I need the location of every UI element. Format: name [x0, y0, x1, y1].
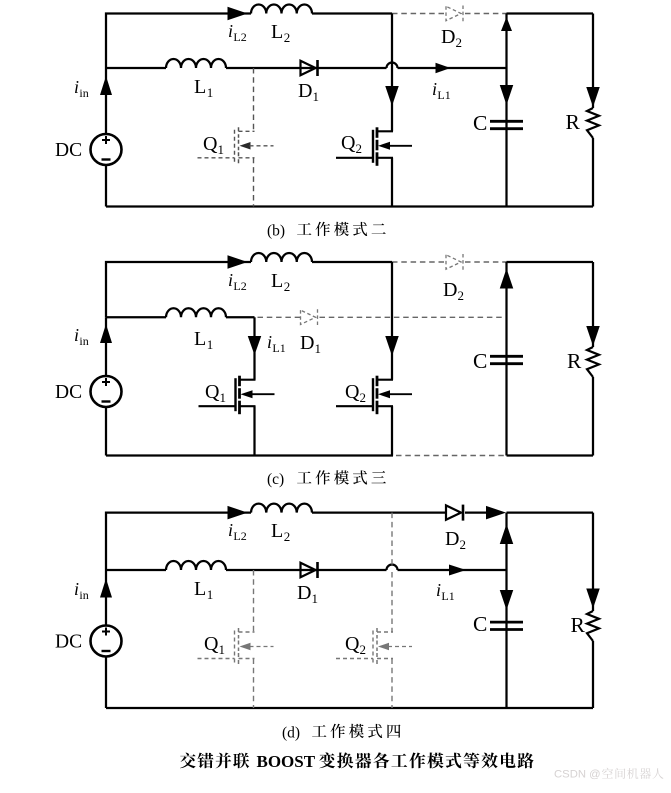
svg-text:Q: Q — [345, 633, 360, 655]
circuit (c): wire Q2 source to bottom rail — [391, 406, 393, 455]
circuit (d): wire bottom rail — [106, 707, 593, 709]
circuit (b): wire middle rail left of L1 — [106, 67, 166, 69]
circuit (d): wire top-left rail segment — [106, 513, 251, 570]
circuit (b): current arrow down into R — [586, 87, 600, 107]
svg-text:L2: L2 — [233, 30, 246, 44]
circuit (c): current arrow iin — [100, 324, 112, 343]
circuit (d): wire D2 to output node — [465, 511, 486, 513]
circuit (b): resistor R — [587, 108, 599, 138]
circuit (b): current arrow down into Q2 — [385, 86, 399, 106]
circuit (b): inductor L2 — [251, 4, 312, 13]
circuit (d): transistor Q1 (off, dashed) — [234, 631, 236, 664]
circuit (b): wire hop over Q2 drain — [387, 63, 398, 68]
circuit (d): dashed drain wire of Q1 — [253, 570, 255, 632]
svg-text:2: 2 — [355, 141, 362, 156]
circuit (b): capacitor C — [490, 120, 523, 123]
circuit (d): wire top-right to R — [507, 511, 594, 513]
svg-text:BOOST: BOOST — [257, 752, 316, 771]
circuit (c): resistor R — [587, 347, 599, 377]
circuit (d): wire left rail upper — [105, 570, 107, 626]
svg-text:L: L — [194, 578, 206, 600]
svg-text:2: 2 — [284, 30, 291, 45]
svg-text:in: in — [79, 334, 88, 348]
svg-text:Q: Q — [204, 633, 219, 655]
circuit (b): wire left rail lower — [105, 165, 107, 207]
circuit (b): wire output node vertical (capacitor branch) — [505, 14, 507, 207]
circuit (c): dashed bottom rail (idle segment) — [396, 455, 507, 457]
circuit (c): wire middle rail L1 to corner — [226, 316, 255, 318]
svg-text:L: L — [271, 270, 283, 292]
svg-text:2: 2 — [284, 279, 291, 294]
circuit (c): wire output node vertical (capacitor branch) — [505, 262, 507, 456]
svg-text:i: i — [74, 579, 79, 599]
svg-text:DC: DC — [55, 632, 82, 653]
circuit (c): wire bottom rail left solid — [106, 454, 393, 456]
circuit (b): current arrow iin — [100, 76, 112, 95]
svg-text:D: D — [298, 80, 312, 102]
svg-text:i: i — [267, 332, 272, 352]
circuit (b): dashed wire D2 to output node — [465, 13, 507, 15]
circuit (b): transistor Q2 (on) — [372, 130, 374, 163]
svg-text:Q: Q — [203, 133, 218, 155]
circuit (b): dashed source wire of Q1 — [253, 158, 255, 207]
svg-text:in: in — [79, 86, 88, 100]
svg-text:(d): (d) — [282, 725, 300, 742]
circuit (b): inductor L1 — [166, 59, 226, 68]
circuit (d): wire middle rail L1 to hop — [226, 569, 387, 571]
svg-text:L1: L1 — [437, 88, 450, 102]
circuit (b): transistor Q1 (off, dashed) — [234, 130, 236, 163]
circuit (b): wire left rail upper — [105, 68, 107, 134]
circuit (c): current arrow down into Q2 — [385, 336, 399, 356]
svg-text:D: D — [443, 279, 457, 301]
svg-text:1: 1 — [314, 341, 321, 356]
circuit (c): wire left rail lower — [105, 407, 107, 456]
svg-text:C: C — [473, 111, 487, 135]
svg-text:1: 1 — [207, 587, 214, 602]
circuit (c): DC source V1 — [91, 376, 122, 407]
circuit (b): wire Q2 source to bottom rail — [391, 158, 393, 207]
circuit (c): current arrow down into R — [586, 326, 600, 346]
circuit (c): wire top after L2 — [312, 261, 392, 263]
circuit (d): current arrow iL1 on middle rail — [449, 565, 466, 576]
circuit (b): wire bottom rail — [106, 205, 593, 207]
svg-text:1: 1 — [312, 89, 319, 104]
svg-text:D: D — [297, 582, 311, 604]
circuit (d): wire resistor branch lower — [592, 641, 594, 708]
circuit (d): current arrow up to top node — [500, 524, 514, 544]
circuit (d): dashed source wire of Q2 — [391, 659, 393, 709]
svg-text:(b): (b) — [267, 223, 285, 240]
svg-text:L: L — [271, 520, 283, 542]
svg-text:Q: Q — [345, 381, 360, 403]
circuit (c): wire Q1 drain from corner — [253, 317, 255, 379]
svg-text:2: 2 — [359, 390, 366, 405]
circuit (b): wire middle rail L1 to hop — [226, 67, 387, 69]
svg-text:2: 2 — [459, 537, 466, 552]
circuit (d): diode D2 (on) — [446, 505, 461, 519]
circuit (c): caption mode-3 text — [297, 471, 311, 483]
circuit (b): current arrow iL1 on middle rail — [436, 63, 451, 74]
circuit (c): inductor L2 — [251, 253, 312, 262]
circuit (c): wire Q2 drain from top rail — [391, 262, 393, 380]
circuit (d): wire left rail lower — [105, 657, 107, 709]
circuit (d): resistor R — [587, 611, 599, 641]
svg-text:1: 1 — [207, 85, 214, 100]
circuit (b): wire Q2 drain from top rail — [391, 14, 393, 132]
circuit (b): current arrow down into capacitor — [500, 85, 514, 105]
svg-text:1: 1 — [311, 591, 318, 606]
svg-text:i: i — [228, 270, 233, 290]
circuit (c): wire top-right to R — [507, 261, 594, 263]
circuit (d): current arrow into output node — [486, 506, 506, 519]
circuit (c): current arrow up from capacitor — [500, 269, 514, 289]
svg-text:i: i — [74, 325, 79, 345]
circuit (c): dashed wire top (off path to D2) — [392, 261, 446, 263]
svg-text:DC: DC — [55, 382, 82, 403]
svg-text:L1: L1 — [272, 341, 285, 355]
circuit (c): current arrow iL1 down into Q1 — [248, 336, 262, 355]
svg-text:2: 2 — [457, 288, 464, 303]
circuit (d): caption mode-4 text — [312, 725, 326, 737]
circuit (d): current arrow down into capacitor — [500, 590, 514, 610]
circuit (c): wire resistor branch upper — [592, 262, 594, 347]
svg-text:2: 2 — [455, 35, 462, 50]
svg-text:DC: DC — [55, 140, 82, 161]
svg-text:1: 1 — [218, 642, 225, 657]
svg-text:D: D — [441, 26, 455, 48]
circuit (b): DC source V1 — [91, 134, 122, 165]
circuit (c): transistor Q1 (on) — [234, 378, 236, 411]
circuit (c): wire left rail upper — [105, 317, 107, 376]
circuit (d): dashed drain wire of Q2 lower — [391, 572, 393, 632]
circuit (c): transistor Q2 (on) — [372, 378, 374, 411]
circuit (d): dashed source wire of Q1 — [253, 659, 255, 709]
svg-text:L1: L1 — [441, 589, 454, 603]
circuit (d): inductor L1 — [166, 561, 226, 570]
svg-text:i: i — [436, 580, 441, 600]
circuit (c): dashed middle rail (off path to D1) — [258, 316, 301, 318]
svg-text:R: R — [567, 349, 582, 373]
circuit (c): wire bottom rail right solid — [507, 454, 594, 456]
svg-text:R: R — [566, 110, 581, 134]
svg-text:Q: Q — [205, 381, 220, 403]
svg-text:L: L — [194, 328, 206, 350]
circuit (c): dashed wire D2 to output node — [465, 261, 507, 263]
circuit (b): wire resistor branch upper — [592, 14, 594, 109]
svg-text:(c): (c) — [267, 471, 284, 488]
svg-text:D: D — [445, 528, 459, 550]
figure caption: interleaved BOOST converter modes — [180, 753, 196, 769]
circuit (b): dashed wire top (off path to D2) — [392, 13, 446, 15]
circuit (b): current arrow iL2 on top wire — [228, 7, 248, 21]
svg-text:C: C — [473, 612, 487, 636]
circuit (c): diode D2 (off, dashed) — [446, 255, 461, 269]
svg-text:2: 2 — [284, 529, 291, 544]
svg-text:2: 2 — [359, 642, 366, 657]
circuit (b): caption mode-2 text — [297, 223, 311, 235]
circuit (d): DC source V1 — [91, 626, 122, 657]
circuit (d): wire top after L2 — [312, 511, 446, 513]
circuit (c): capacitor C — [490, 355, 523, 358]
circuit (d): wire resistor branch upper — [592, 513, 594, 611]
circuit (b): dashed drain wire of Q1 — [253, 68, 255, 131]
circuit (c): wire top-left rail segment — [106, 262, 251, 317]
circuit (d): wire output node vertical (capacitor branch) — [505, 513, 507, 708]
svg-text:L: L — [194, 76, 206, 98]
svg-text:L: L — [271, 21, 283, 43]
svg-text:1: 1 — [217, 142, 224, 157]
svg-text:i: i — [228, 21, 233, 41]
svg-text:L2: L2 — [233, 279, 246, 293]
circuit (d): current arrow down into R — [586, 589, 600, 609]
svg-text:i: i — [228, 520, 233, 540]
circuit (d): diode D1 (on) — [301, 563, 316, 577]
circuit (c): dashed wire D1 to output node — [320, 316, 507, 318]
svg-text:R: R — [571, 613, 586, 637]
circuit (d): capacitor C — [490, 621, 523, 624]
circuit (b): wire resistor branch lower — [592, 138, 594, 207]
circuit (c): wire resistor branch lower — [592, 377, 594, 456]
circuit (b): wire top after L2 — [312, 12, 392, 14]
circuit (d): transistor Q2 (off, dashed) — [372, 631, 374, 664]
svg-text:i: i — [74, 77, 79, 97]
circuit (c): wire Q1 source to bottom rail — [253, 406, 255, 455]
svg-text:D: D — [300, 332, 314, 354]
circuit (c): inductor L1 — [166, 308, 226, 317]
circuit (d): current arrow iin — [100, 579, 112, 598]
circuit (b): wire top-right to R — [507, 12, 594, 14]
circuit (d): wire hop over Q2 drain — [387, 565, 398, 571]
circuit (c): wire middle rail left of L1 — [106, 316, 166, 318]
svg-text:i: i — [432, 79, 437, 99]
circuit (b): diode D1 (on) — [301, 61, 316, 75]
svg-text:CSDN @: CSDN @ — [554, 769, 601, 781]
svg-text:L2: L2 — [233, 529, 246, 543]
circuit (c): diode D1 (off, dashed) — [301, 310, 316, 324]
svg-text:C: C — [473, 349, 487, 373]
svg-text:Q: Q — [341, 132, 356, 154]
circuit (d): wire middle rail after hop — [398, 569, 507, 571]
svg-text:in: in — [79, 588, 88, 602]
circuit (b): wire middle rail after hop — [398, 67, 507, 69]
circuit (b): diode D2 (off, dashed) — [446, 6, 461, 20]
circuit (d): current arrow iL2 on top wire — [228, 506, 248, 519]
circuit (c): current arrow iL2 on top wire — [228, 255, 248, 269]
circuit (b): current arrow up to top node — [501, 17, 512, 31]
circuit (b): wire top-left rail segment — [106, 14, 251, 69]
svg-text:1: 1 — [219, 390, 226, 405]
circuit (d): wire middle rail left of L1 — [106, 569, 166, 571]
circuit (d): dashed drain wire of Q2 upper — [391, 513, 393, 568]
svg-text:1: 1 — [207, 337, 214, 352]
circuit (d): inductor L2 — [251, 504, 312, 513]
